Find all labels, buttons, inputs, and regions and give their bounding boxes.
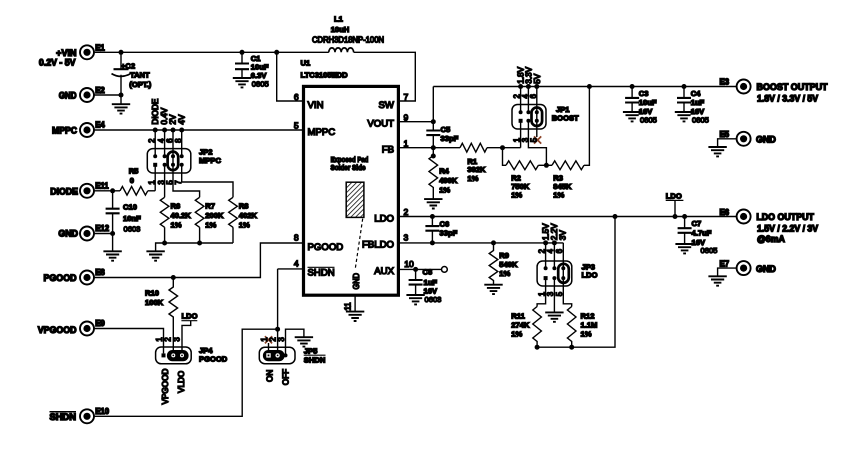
resistor R7 200K xyxy=(195,197,224,229)
svg-text:0805: 0805 xyxy=(701,246,718,255)
svg-text:E12: E12 xyxy=(95,224,110,233)
node JP1 rail taps xyxy=(518,84,539,89)
resistor R1 392K xyxy=(460,143,487,183)
svg-text:E5: E5 xyxy=(720,130,730,139)
terminal E10 SHDN xyxy=(50,407,110,423)
svg-text:11: 11 xyxy=(344,302,353,310)
ground at E7 xyxy=(708,276,726,285)
terminal E2 GND xyxy=(59,86,106,102)
capacitor C4 xyxy=(677,84,709,124)
svg-text:2: 2 xyxy=(404,207,409,217)
node LDO rail vertical xyxy=(613,214,618,219)
resistor R10 100K xyxy=(145,278,178,356)
wire L1 to SW pin 7 xyxy=(354,52,416,101)
svg-text:MPPC: MPPC xyxy=(199,156,221,165)
svg-text:R11: R11 xyxy=(511,311,525,320)
node AUX C8 junction xyxy=(413,267,418,272)
svg-text:E10: E10 xyxy=(95,407,110,416)
svg-text:1%: 1% xyxy=(499,269,510,278)
svg-text:LTC3105EDD: LTC3105EDD xyxy=(301,70,349,79)
wire JP1 pin5 stub xyxy=(536,121,538,137)
svg-text:R7: R7 xyxy=(205,201,215,210)
svg-text:CDRH3D18NP-100N: CDRH3D18NP-100N xyxy=(312,35,384,44)
svg-text:1%: 1% xyxy=(239,220,250,229)
svg-text:LDO OUTPUT: LDO OUTPUT xyxy=(756,212,814,222)
svg-text:C5: C5 xyxy=(441,125,451,134)
wire JP1 pin3 stub to node B xyxy=(528,121,546,166)
svg-text:5V: 5V xyxy=(533,73,542,84)
ground for MPPC divider xyxy=(146,251,164,260)
capacitor C1 xyxy=(235,52,269,88)
wire R1 to node A xyxy=(487,147,521,149)
svg-text:0805: 0805 xyxy=(252,80,269,89)
svg-text:E4: E4 xyxy=(95,121,105,130)
node R12 bottom xyxy=(569,345,574,350)
wire JP2 pin1 stub to diode line xyxy=(154,165,156,191)
svg-text:LDO: LDO xyxy=(182,312,198,321)
svg-text:6: 6 xyxy=(555,249,564,253)
svg-text:R9: R9 xyxy=(499,251,509,260)
wire JP1 top stubs from rail xyxy=(521,87,537,121)
svg-text:C3: C3 xyxy=(639,89,649,98)
pin numbers JP1 bottom 1 3 5 xyxy=(513,137,539,142)
capacitor C7 xyxy=(678,214,718,255)
svg-text:1%: 1% xyxy=(467,174,478,183)
svg-text:6: 6 xyxy=(294,92,299,102)
svg-text:2.2V: 2.2V xyxy=(550,223,559,240)
svg-text:1: 1 xyxy=(260,337,269,341)
connector JP5 SHDN xyxy=(259,347,325,365)
svg-text:8: 8 xyxy=(294,233,299,243)
pin numbers JP1 top 2 4 6 xyxy=(513,94,539,99)
svg-text:1%: 1% xyxy=(205,220,216,229)
svg-text:1.1M: 1.1M xyxy=(581,321,598,330)
terminal E6 LDO OUTPUT xyxy=(720,208,819,244)
svg-text:LDO: LDO xyxy=(666,191,682,200)
svg-text:10uH: 10uH xyxy=(331,25,350,34)
connector JP4 PGOOD xyxy=(156,346,228,364)
svg-text:4V: 4V xyxy=(177,114,186,125)
node C10 top xyxy=(110,188,115,193)
wire E2 to ground xyxy=(94,95,121,104)
U1 pin 1 FB label xyxy=(382,138,409,155)
connector JP2 MPPC xyxy=(147,147,221,173)
terminal E9 VPGOOD xyxy=(38,319,106,335)
svg-text:SHDN: SHDN xyxy=(304,356,326,365)
svg-text:MPPC: MPPC xyxy=(52,126,78,136)
wire MPPC net E4 to pin 5 xyxy=(94,129,302,131)
svg-text:16V: 16V xyxy=(424,286,438,295)
svg-text:1%: 1% xyxy=(511,330,522,339)
svg-text:C10: C10 xyxy=(123,203,137,212)
svg-text:3: 3 xyxy=(172,337,181,341)
svg-text:E2: E2 xyxy=(95,86,105,95)
svg-text:274K: 274K xyxy=(511,321,530,330)
svg-text:3: 3 xyxy=(404,233,409,243)
svg-text:1.5V / 2.2V / 3V: 1.5V / 2.2V / 3V xyxy=(757,223,818,233)
svg-text:2: 2 xyxy=(164,337,173,341)
wire JP5 pin2 stub xyxy=(277,329,279,355)
terminal E12 GND xyxy=(58,224,109,240)
capacitor C6 xyxy=(425,214,457,243)
svg-text:100K: 100K xyxy=(145,298,164,307)
node VIN drop junction xyxy=(274,50,279,55)
svg-text:E9: E9 xyxy=(95,319,105,328)
node R3 rail junction xyxy=(587,84,592,89)
svg-text:E8: E8 xyxy=(95,268,105,277)
svg-text:E3: E3 xyxy=(720,78,730,87)
pin numbers JP3 top 2 4 6 xyxy=(538,248,565,253)
svg-text:5: 5 xyxy=(294,121,299,131)
resistor R11 274K xyxy=(511,307,541,348)
svg-text:TANT: TANT xyxy=(130,70,150,79)
svg-text:10: 10 xyxy=(404,259,414,269)
wire FBLDO pin 3 line xyxy=(400,242,563,244)
svg-text:R5: R5 xyxy=(129,167,139,176)
svg-text:L1: L1 xyxy=(334,14,344,23)
svg-text:VPGOOD: VPGOOD xyxy=(38,325,77,335)
svg-text:1%: 1% xyxy=(439,186,450,195)
svg-text:1%: 1% xyxy=(511,191,522,200)
resistor R5 0 xyxy=(120,167,148,196)
ground at JP5 xyxy=(295,337,313,346)
U1 pin 9 VOUT label xyxy=(367,112,408,129)
wire R6 R7 R8 commons to ground xyxy=(156,227,233,251)
svg-text:2: 2 xyxy=(148,139,157,143)
svg-text:7: 7 xyxy=(404,92,409,102)
svg-text:+VIN: +VIN xyxy=(56,48,76,58)
svg-text:1: 1 xyxy=(155,337,164,341)
wire E7 to ground xyxy=(718,268,737,276)
wire JP3 pin5 to R12 xyxy=(563,278,571,306)
svg-text:GND: GND xyxy=(756,264,776,274)
wire E10 to JP5 pin2 and pin 4 xyxy=(94,269,302,416)
wire JP1 pin1 stub xyxy=(520,121,522,148)
U1 pin 10 AUX label xyxy=(374,259,414,277)
terminal E1 +VIN xyxy=(39,43,106,67)
ground below JP3 pin3 xyxy=(545,312,563,321)
ground below C4 xyxy=(675,112,693,121)
wire JP3 pin1 to R11 xyxy=(537,278,546,306)
wire E1 to L1 input rail xyxy=(94,51,329,53)
terminal E4 MPPC xyxy=(52,121,105,137)
wire E9 to JP4 pin1 xyxy=(94,329,164,354)
pin numbers JP5 1 2 3 xyxy=(260,337,286,341)
wire E8 to PGOOD pin 8 xyxy=(94,243,302,278)
svg-text:E6: E6 xyxy=(720,208,730,217)
ground below C2 xyxy=(112,104,130,113)
resistor R8 402K xyxy=(229,197,258,229)
svg-text:OFF: OFF xyxy=(282,369,291,385)
capacitor C10 xyxy=(106,191,141,234)
svg-text:0805: 0805 xyxy=(640,115,657,124)
wire R11 R12 bottoms to LDO vertical xyxy=(537,217,615,348)
svg-text:9: 9 xyxy=(404,112,409,122)
svg-text:402K: 402K xyxy=(239,211,258,220)
node JP5 pin2 junction xyxy=(275,327,280,332)
svg-text:VLDO: VLDO xyxy=(177,371,186,393)
node JP3 taps on FBLDO xyxy=(543,240,557,245)
wire R2 to node B xyxy=(538,164,552,166)
svg-text:C7: C7 xyxy=(692,219,702,228)
svg-text:1.8V / 3.3V / 5V: 1.8V / 3.3V / 5V xyxy=(757,93,818,103)
U1 pin 11 ground xyxy=(344,296,365,321)
svg-text:VOUT: VOUT xyxy=(367,119,394,130)
terminal E11 DIODE xyxy=(50,182,109,198)
svg-text:GND: GND xyxy=(58,228,78,238)
wire AUX to turret xyxy=(400,268,442,270)
wire JP2 pin3 stub to R6 xyxy=(164,165,166,198)
svg-text:C4: C4 xyxy=(691,89,701,98)
pin numbers JP4 1 2 3 xyxy=(155,337,182,341)
wire JP5 pin1 stub no connect xyxy=(268,343,270,353)
svg-text:AUX: AUX xyxy=(374,266,394,277)
ground below R4 xyxy=(424,199,442,208)
ground below R9 xyxy=(484,285,502,294)
node FBLDO R9 xyxy=(491,240,496,245)
svg-text:R10: R10 xyxy=(145,289,159,298)
svg-text:R12: R12 xyxy=(581,311,595,320)
svg-text:DIODE: DIODE xyxy=(50,187,78,197)
svg-text:FB: FB xyxy=(382,145,394,156)
U1 pin 8 PGOOD label xyxy=(294,233,343,253)
net label LDO at JP4 xyxy=(181,312,197,356)
wire R3 up to boost rail xyxy=(584,87,589,166)
wire FB pin 1 line xyxy=(400,147,460,149)
ground below C8 xyxy=(406,295,424,304)
wire VOUT pin 9 to boost rail xyxy=(400,87,433,122)
capacitor C2 xyxy=(112,50,152,95)
U1 pin 6 VIN label xyxy=(294,92,324,111)
node MPPC jumper taps xyxy=(153,128,185,133)
svg-text:BOOST OUTPUT: BOOST OUTPUT xyxy=(757,82,829,92)
capacitor C5 xyxy=(426,122,458,148)
svg-text:10uF: 10uF xyxy=(639,98,657,107)
wire LDO rail pin 2 to E6 xyxy=(400,216,737,218)
ground below C1 xyxy=(233,78,251,87)
svg-text:4: 4 xyxy=(294,259,299,269)
node FB junction xyxy=(431,145,436,150)
svg-text:3V: 3V xyxy=(559,230,568,241)
svg-text:1: 1 xyxy=(404,138,409,148)
node VOUT C5 junction xyxy=(431,119,436,124)
U1 pin 5 MPPC label xyxy=(294,121,335,138)
svg-text:0603: 0603 xyxy=(425,295,442,304)
svg-text:E7: E7 xyxy=(720,259,730,268)
U1 pin 7 SW label xyxy=(379,92,409,111)
wire JP2 top stubs xyxy=(155,130,182,165)
svg-text:VPGOOD: VPGOOD xyxy=(161,368,170,404)
svg-text:1uF: 1uF xyxy=(691,98,705,107)
terminal E7 GND xyxy=(720,259,776,275)
resistor R9 549K xyxy=(489,243,518,285)
turret on AUX xyxy=(442,267,448,273)
svg-text:5: 5 xyxy=(529,137,538,142)
svg-text:SHDN: SHDN xyxy=(50,412,77,422)
svg-text:4.7uF: 4.7uF xyxy=(692,229,712,238)
svg-text:6: 6 xyxy=(165,139,174,143)
svg-text:R6: R6 xyxy=(171,201,181,210)
wire JP2 pin5 stub to R7 xyxy=(173,165,200,198)
U1 pin 3 FBLDO label xyxy=(362,233,409,251)
svg-text:33pF: 33pF xyxy=(441,134,459,143)
inductor L1 xyxy=(312,14,384,52)
svg-text:MPPC: MPPC xyxy=(308,127,336,138)
svg-text:LDO: LDO xyxy=(582,271,598,280)
svg-text:8: 8 xyxy=(174,139,183,143)
svg-text:GND: GND xyxy=(352,273,361,290)
svg-text:6: 6 xyxy=(529,94,538,98)
svg-text:R8: R8 xyxy=(239,201,249,210)
node R6 bottom xyxy=(162,241,167,246)
svg-text:R4: R4 xyxy=(439,167,449,176)
svg-text:4: 4 xyxy=(546,248,555,253)
U1 pin 4 SHDN label xyxy=(294,259,335,279)
svg-text:PGOOD: PGOOD xyxy=(44,273,77,283)
X mark JP5 pin1 xyxy=(265,336,272,343)
pin numbers JP3 bottom 1 3 5 xyxy=(538,291,565,296)
capacitor C3 xyxy=(625,84,657,124)
ground below C10 xyxy=(103,251,121,260)
svg-text:@6mA: @6mA xyxy=(757,234,785,244)
terminal E3 BOOST OUTPUT xyxy=(720,78,829,104)
terminal E8 PGOOD xyxy=(44,268,106,284)
wire R5 to JP2 pin1 xyxy=(148,190,155,192)
svg-text:(OPT.): (OPT.) xyxy=(129,80,151,89)
svg-text:DIODE: DIODE xyxy=(151,98,160,124)
wire boost rail xyxy=(433,86,736,88)
wire VIN drop to pin 6 xyxy=(277,52,302,101)
ground below C7 xyxy=(675,244,693,253)
svg-text:33pF: 33pF xyxy=(440,228,458,237)
svg-text:VIN: VIN xyxy=(308,100,324,111)
svg-text:JP4: JP4 xyxy=(199,346,213,355)
svg-text:0.2V - 5V: 0.2V - 5V xyxy=(39,58,76,68)
node R10 tap xyxy=(171,275,176,280)
svg-text:E1: E1 xyxy=(95,43,105,52)
svg-text:PGOOD: PGOOD xyxy=(199,355,228,364)
svg-text:0805: 0805 xyxy=(692,115,709,124)
svg-text:C8: C8 xyxy=(423,267,433,276)
ground at E5 xyxy=(708,147,726,156)
svg-text:LDO: LDO xyxy=(374,213,394,224)
wire E12 to ground xyxy=(94,234,113,252)
wire JP2 pin7 stub to R8 xyxy=(182,165,233,198)
wire JP3 pin3 to ground xyxy=(553,278,555,312)
svg-text:JP5: JP5 xyxy=(304,347,318,356)
wire E5 to ground xyxy=(718,139,737,147)
resistor R6 40.2K xyxy=(160,197,191,229)
svg-text:+C2: +C2 xyxy=(121,62,135,71)
resistor R2 750K xyxy=(506,161,538,200)
svg-text:1%: 1% xyxy=(581,330,592,339)
svg-text:C6: C6 xyxy=(440,219,450,228)
svg-text:GND: GND xyxy=(59,90,77,100)
connector JP1 BOOST xyxy=(512,105,579,130)
ground below C3 xyxy=(623,112,641,121)
wire JP5 pin3 to ground xyxy=(286,329,304,355)
node R7 bottom xyxy=(197,241,202,246)
svg-text:E11: E11 xyxy=(95,182,109,191)
svg-text:499K: 499K xyxy=(439,176,458,185)
node A FB tap xyxy=(500,145,505,150)
node C2 top junction xyxy=(240,50,245,55)
svg-text:10nF: 10nF xyxy=(123,214,141,223)
svg-text:40.2K: 40.2K xyxy=(171,211,192,220)
pin numbers JP2 bottom 1 3 5 7 xyxy=(148,180,184,185)
resistor R4 499K xyxy=(429,148,458,199)
connector JP3 LDO xyxy=(537,261,598,286)
node R11 bottom xyxy=(535,345,540,350)
svg-text:0603: 0603 xyxy=(124,224,141,233)
terminal E5 GND xyxy=(720,130,776,146)
resistor R12 1.1M xyxy=(567,307,597,348)
node FBLDO C6 xyxy=(430,240,435,245)
pin numbers JP2 top 2 4 6 8 xyxy=(148,138,184,143)
svg-text:FBLDO: FBLDO xyxy=(362,240,394,251)
svg-text:2V: 2V xyxy=(169,114,178,125)
resistor R3 845K xyxy=(552,161,584,200)
op-amp U1 LTC3105EDD body xyxy=(301,58,399,295)
wire E11 to R5 xyxy=(94,190,120,192)
U1 pin 2 LDO label xyxy=(374,207,408,224)
wire JP3 top stubs xyxy=(546,243,564,278)
svg-text:1%: 1% xyxy=(553,191,564,200)
svg-text:549K: 549K xyxy=(499,260,518,269)
svg-text:SW: SW xyxy=(379,100,395,111)
X mark JP1 pin5 xyxy=(534,136,541,143)
node B R2 R3 junction xyxy=(544,163,549,168)
U1 exposed pad xyxy=(331,155,369,290)
svg-text:GND: GND xyxy=(756,135,776,145)
svg-text:200K: 200K xyxy=(205,211,224,220)
capacitor C8 xyxy=(409,267,442,304)
net label LDO at rail xyxy=(666,191,684,219)
svg-text:1%: 1% xyxy=(171,220,182,229)
svg-text:U1: U1 xyxy=(301,58,311,67)
svg-text:0: 0 xyxy=(130,176,134,185)
svg-text:SHDN: SHDN xyxy=(308,268,335,279)
svg-text:PGOOD: PGOOD xyxy=(308,242,344,253)
svg-text:ON: ON xyxy=(266,370,275,382)
wire node A down to R2 xyxy=(503,148,507,166)
svg-text:BOOST: BOOST xyxy=(552,114,579,123)
svg-text:Solder Side: Solder Side xyxy=(331,163,366,172)
